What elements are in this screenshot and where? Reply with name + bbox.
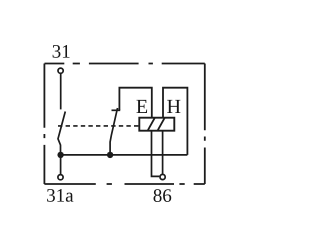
node junction J1 xyxy=(57,152,63,158)
label terminal 86 xyxy=(154,189,172,202)
switch S2 fixed contact bar xyxy=(112,109,121,111)
label H xyxy=(167,100,180,113)
dashed mechanical linkage xyxy=(58,125,140,127)
terminal 86 xyxy=(160,174,165,179)
terminal 31a xyxy=(58,175,63,180)
enclosure dash-dot border, left edge xyxy=(43,64,45,185)
label terminal 31 xyxy=(53,45,70,58)
wire junction J1 to terminal 31a xyxy=(60,155,62,174)
main bus wire (junction J1 to H loop bottom-right) xyxy=(61,154,188,156)
enclosure dash-dot border (relay housing), top edge xyxy=(45,63,205,65)
node junction J2 xyxy=(107,152,113,158)
wire from terminal 31 down to switch S1 xyxy=(60,74,62,110)
label E xyxy=(136,100,147,113)
terminal 31 xyxy=(58,68,63,73)
switch S2 blade xyxy=(110,108,117,153)
switch S1 blade xyxy=(58,112,65,154)
enclosure dash-dot border, bottom edge xyxy=(44,183,204,185)
coil hatch stroke 2 xyxy=(158,118,165,130)
wire H loop (coil top, up, across, down to main bus) xyxy=(163,88,187,155)
coil lead right down to terminal 86 xyxy=(162,131,164,174)
coil lead left down and over to terminal 86 xyxy=(152,131,160,177)
relay coil (hatched box) xyxy=(139,118,174,131)
wire E loop (fixed contact up, across, down to coil) xyxy=(119,88,151,118)
enclosure dash-dot border, right edge xyxy=(204,64,206,185)
coil hatch stroke 1 xyxy=(148,118,155,130)
label terminal 31a xyxy=(47,189,73,202)
